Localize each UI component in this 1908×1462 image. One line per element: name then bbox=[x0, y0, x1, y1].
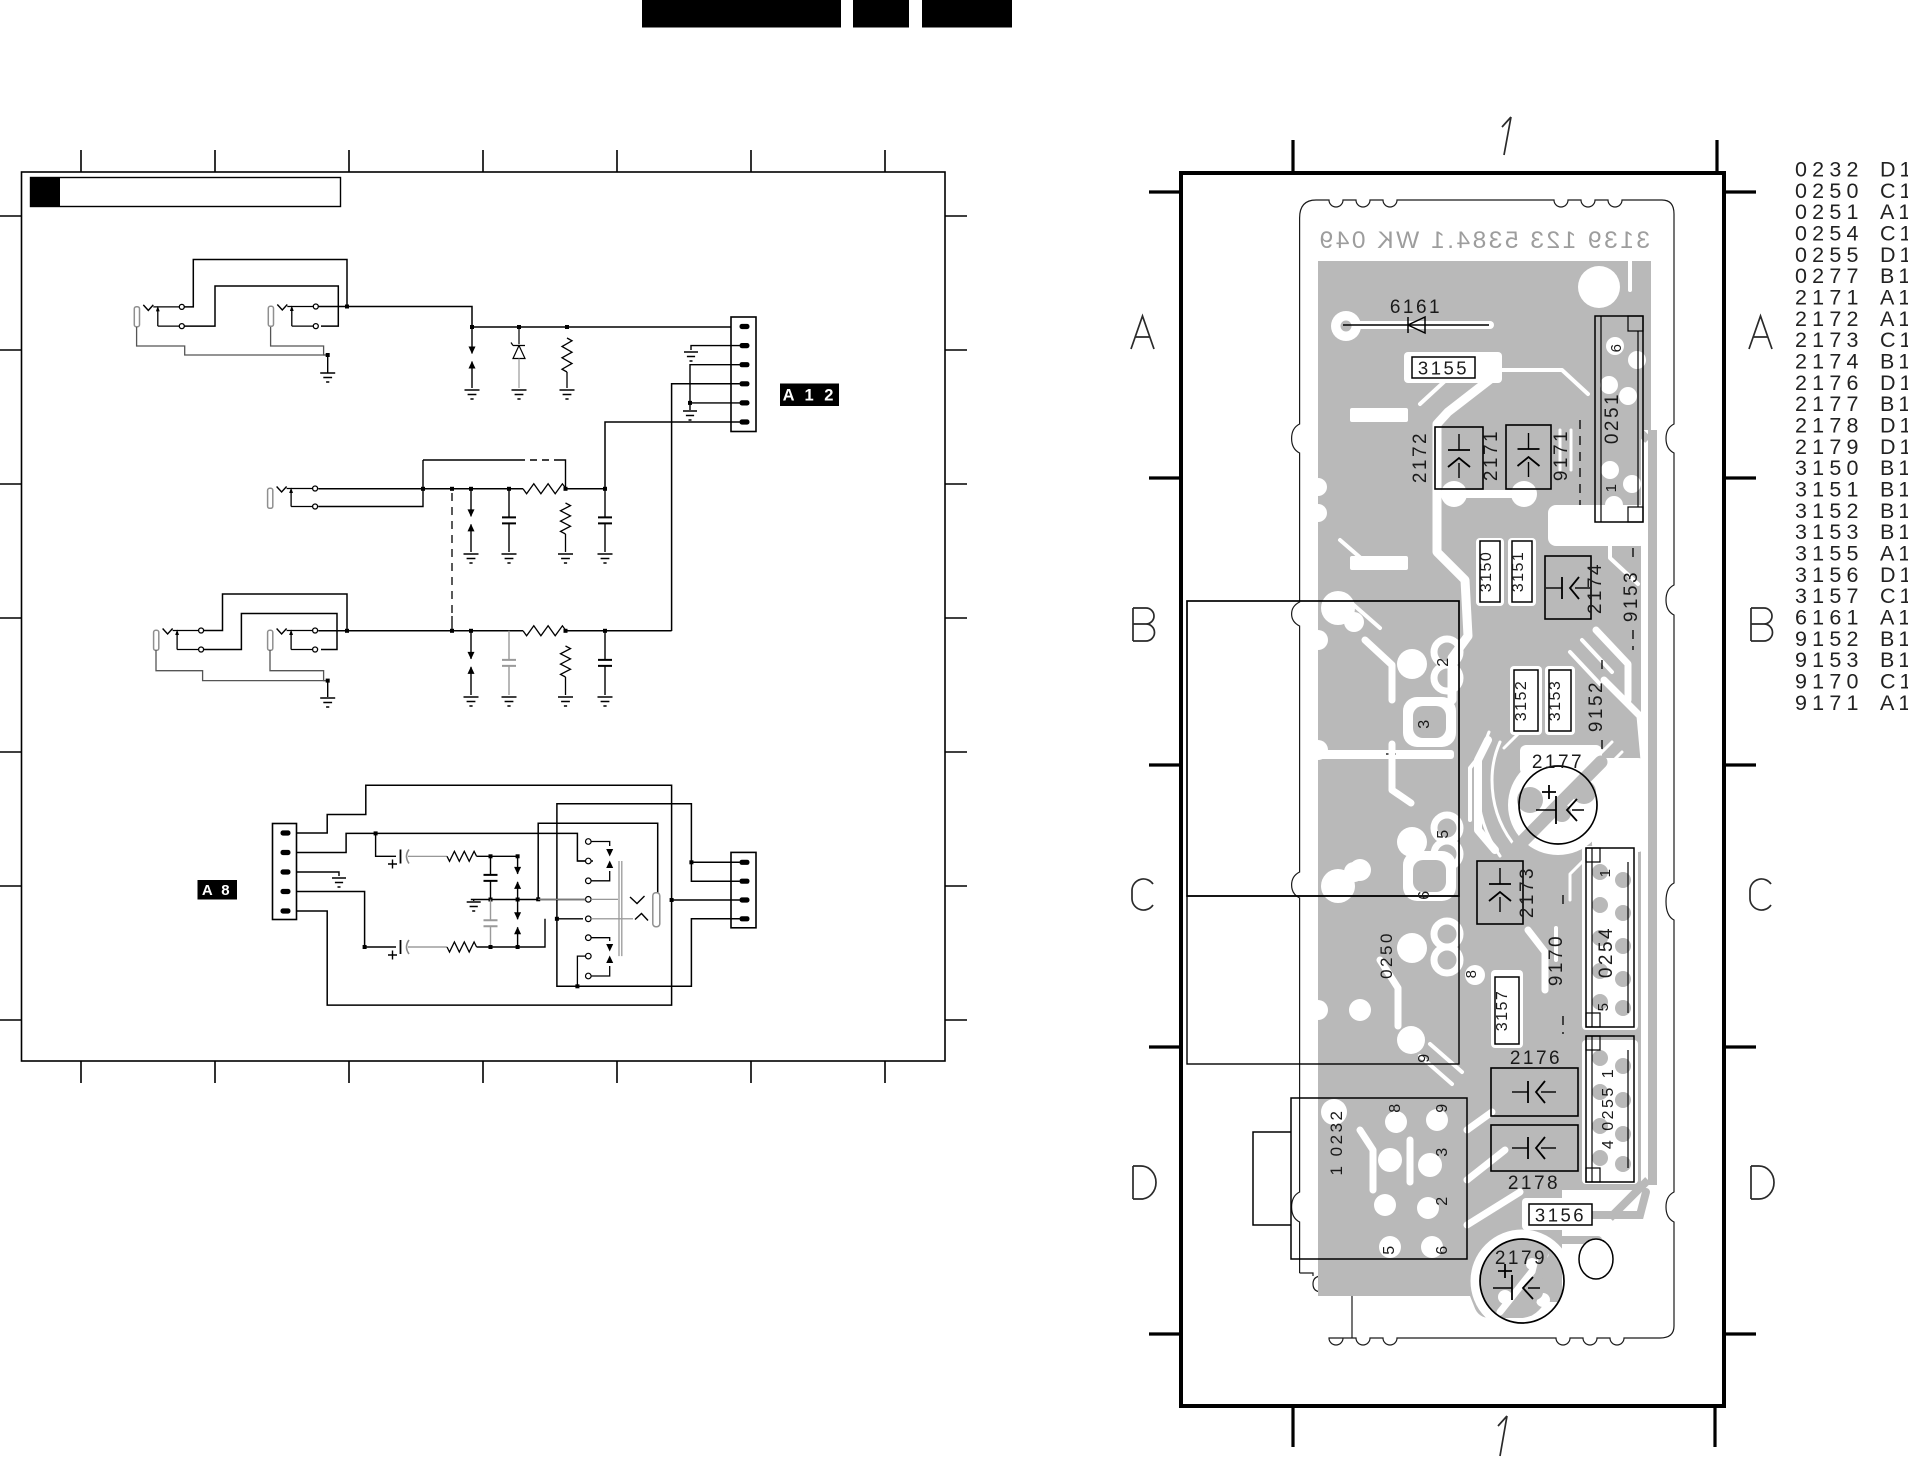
spark gap SG5 bbox=[517, 900, 519, 948]
resistor R3 bbox=[564, 487, 568, 491]
spark gap SG3 bbox=[469, 629, 473, 633]
svg-text:2173: 2173 bbox=[1517, 866, 1538, 918]
zone letter C left bbox=[1132, 879, 1153, 910]
zone number 1 top bbox=[1502, 117, 1511, 155]
wire row2 main bbox=[318, 630, 671, 632]
wire c5 row gray bbox=[591, 918, 633, 920]
capacitor C4 bbox=[603, 629, 607, 633]
jack J5 bbox=[268, 628, 318, 652]
svg-text:6: 6 bbox=[1608, 342, 1625, 353]
connector 0254 bbox=[1586, 848, 1634, 1027]
zone letter A right bbox=[1749, 316, 1772, 349]
copper pour bbox=[1318, 261, 1651, 1318]
svg-text:0254: 0254 bbox=[1596, 926, 1617, 978]
connector 0250 pin labels bbox=[1377, 655, 1452, 1062]
label A8 bbox=[198, 880, 238, 900]
resistor R2 series bbox=[523, 484, 566, 494]
junction spark gap top bbox=[470, 325, 474, 329]
svg-text:6161: 6161 bbox=[1795, 605, 1864, 629]
copper clearances and traces (white) bbox=[1308, 260, 1665, 1328]
svg-text:3157: 3157 bbox=[1494, 990, 1511, 1032]
connector 0232 outline bbox=[1253, 1098, 1467, 1259]
svg-text:B1: B1 bbox=[1880, 264, 1908, 288]
spark gap SG1 bbox=[471, 327, 473, 388]
svg-text:9: 9 bbox=[1434, 1101, 1451, 1112]
svg-text:3155: 3155 bbox=[1795, 541, 1864, 565]
connector 0232 pin labels bbox=[1381, 1101, 1451, 1254]
svg-text:A1: A1 bbox=[1880, 605, 1908, 629]
electrolytic capacitor C10 bbox=[365, 946, 396, 948]
capacitor 2171 bbox=[1481, 425, 1551, 489]
connector A12 bbox=[731, 317, 756, 432]
capacitor 2173 bbox=[1477, 861, 1538, 924]
wire loop inner J4 ring bbox=[204, 614, 337, 650]
svg-text:3151: 3151 bbox=[1510, 551, 1527, 593]
ground A12 pin3/5 bbox=[683, 411, 697, 420]
svg-text:2176: 2176 bbox=[1510, 1048, 1562, 1069]
wire c6 to switch arrow bbox=[591, 938, 610, 941]
wire c4 tip row bbox=[538, 898, 618, 900]
svg-text:9171: 9171 bbox=[1795, 691, 1864, 715]
connector 0255 bbox=[1586, 1036, 1634, 1182]
ground A12 pin2 bbox=[684, 352, 698, 361]
wire row1 dashed tap bbox=[451, 493, 453, 616]
wire J1 shield bbox=[137, 327, 328, 355]
zone letter C right bbox=[1750, 879, 1771, 910]
zone letter D left bbox=[1133, 1166, 1156, 1199]
wire A8 pin3 to ground bbox=[297, 872, 340, 876]
frame zone ticks left bbox=[0, 216, 22, 1020]
ground shield top bbox=[320, 373, 335, 382]
wire J4 shield bbox=[156, 650, 328, 681]
svg-text:2172: 2172 bbox=[1410, 431, 1431, 483]
ground SG2 bbox=[464, 554, 479, 563]
zone letter B left bbox=[1133, 608, 1155, 641]
connector 0251 bbox=[1595, 316, 1643, 522]
svg-text:2177: 2177 bbox=[1795, 392, 1864, 416]
svg-text:6: 6 bbox=[1434, 1243, 1451, 1254]
wire A12 pin4 long riser bbox=[672, 384, 740, 631]
wire row1 main bbox=[318, 488, 605, 490]
jumper 9152 bbox=[1586, 660, 1607, 754]
wire A8 pin4 to lower row bbox=[297, 892, 365, 948]
wire cap2 row right bbox=[477, 919, 545, 947]
headphone jack J6 bbox=[586, 839, 660, 979]
spark gap SG2 bbox=[469, 487, 473, 491]
wire J2 tip to A12 pin1 bbox=[318, 307, 731, 328]
svg-text:3152: 3152 bbox=[1513, 680, 1530, 722]
capacitor C6 bbox=[490, 900, 492, 948]
svg-text:4 0255 1: 4 0255 1 bbox=[1600, 1067, 1617, 1149]
svg-text:3150: 3150 bbox=[1478, 551, 1495, 593]
electrolytic capacitor C9 bbox=[376, 833, 396, 856]
wire A12 pin2 to ground bbox=[691, 346, 740, 350]
connector A8 bbox=[273, 824, 297, 920]
capacitor 2177 bbox=[1519, 752, 1597, 844]
svg-text:0277: 0277 bbox=[1795, 264, 1864, 288]
junction shields bbox=[326, 353, 330, 357]
component 3151 bbox=[1510, 541, 1532, 602]
svg-text:5: 5 bbox=[1381, 1243, 1398, 1254]
jack J2 bbox=[268, 304, 318, 329]
svg-text:A 1 2: A 1 2 bbox=[783, 387, 837, 405]
svg-text:9170: 9170 bbox=[1795, 669, 1864, 693]
ground D1 bbox=[512, 390, 527, 399]
component 3153 bbox=[1547, 670, 1571, 731]
svg-text:5: 5 bbox=[1595, 1001, 1612, 1012]
mounting hole bbox=[1579, 1239, 1613, 1279]
resistor R5 bbox=[564, 629, 568, 633]
capacitor C1 bbox=[507, 487, 511, 491]
wire loop outer (J1 tip net) bbox=[184, 260, 347, 307]
wire loop outer J4 tip bbox=[204, 594, 347, 631]
wire loop inner (J1 ring net) bbox=[184, 286, 338, 326]
svg-text:9170: 9170 bbox=[1546, 934, 1567, 986]
capacitor 2179 bbox=[1480, 1239, 1564, 1323]
redaction bar 2 bbox=[853, 0, 909, 28]
wire J3 ring bbox=[318, 460, 423, 507]
svg-text:2173: 2173 bbox=[1795, 328, 1864, 352]
capacitor C3 bbox=[508, 631, 510, 695]
wire J2 shield bbox=[271, 327, 328, 355]
capacitor 2178 bbox=[1491, 1125, 1578, 1194]
zone letter B right bbox=[1751, 608, 1773, 641]
wire 2nd loop (right connector pins 1/2 to tap) bbox=[557, 804, 740, 987]
frame zone ticks right bbox=[945, 216, 967, 1020]
component 3157 bbox=[1494, 977, 1519, 1044]
svg-text:3: 3 bbox=[1434, 1145, 1451, 1156]
svg-text:1: 1 bbox=[1603, 482, 1620, 493]
copper islands (gray) bbox=[1341, 321, 1658, 1313]
svg-text:3155: 3155 bbox=[1418, 358, 1469, 379]
component 3156 bbox=[1529, 1204, 1592, 1226]
resistor R7 bbox=[447, 942, 477, 952]
PCB frame ticks bbox=[1149, 140, 1756, 1447]
component 3150 bbox=[1478, 541, 1500, 602]
label A12 bbox=[780, 384, 839, 407]
svg-text:B1: B1 bbox=[1880, 477, 1908, 501]
redaction bar 1 bbox=[642, 0, 841, 28]
svg-text:9171: 9171 bbox=[1551, 429, 1572, 481]
svg-text:2179: 2179 bbox=[1495, 1248, 1547, 1269]
ground C2 bbox=[598, 554, 613, 563]
diode 6161 bbox=[1343, 317, 1489, 333]
ground C1 bbox=[502, 554, 517, 563]
wire J5 shield bbox=[270, 650, 328, 681]
component 3155 bbox=[1412, 357, 1475, 379]
resistor R1 bbox=[562, 338, 572, 372]
junction J2 tip bbox=[345, 305, 349, 309]
svg-text:2174: 2174 bbox=[1585, 562, 1606, 614]
junction resistor top bbox=[565, 325, 569, 329]
title block bbox=[31, 178, 341, 207]
connector A11 (4-pin right) bbox=[731, 852, 756, 927]
PCB sheet frame bbox=[1181, 173, 1724, 1406]
svg-text:3: 3 bbox=[1416, 717, 1433, 728]
wire c3 switch arrow bbox=[591, 871, 610, 881]
wire A12 pin6 riser bbox=[605, 422, 740, 489]
capacitor 2172 bbox=[1410, 427, 1483, 489]
ground A8 pin3 bbox=[332, 878, 346, 887]
frame zone ticks bottom bbox=[81, 1061, 885, 1083]
connector 0250 outline box B bbox=[1187, 601, 1459, 896]
wire right connector pin3 bbox=[672, 899, 740, 901]
jack J1 bbox=[134, 304, 184, 328]
wire headphone tip contact row bbox=[536, 897, 540, 901]
jumper 9153 bbox=[1621, 548, 1642, 650]
spark gap SG4 bbox=[516, 854, 520, 858]
svg-text:8: 8 bbox=[1463, 968, 1480, 979]
svg-text:3153: 3153 bbox=[1547, 680, 1564, 722]
svg-text:0250: 0250 bbox=[1377, 931, 1396, 979]
jumper 9171 bbox=[1551, 420, 1580, 505]
ground SG1 bbox=[465, 390, 480, 399]
svg-text:9152: 9152 bbox=[1586, 680, 1607, 732]
jack J4 bbox=[154, 628, 204, 652]
resistor R6 bbox=[447, 851, 477, 861]
ground R3 bbox=[558, 554, 573, 563]
svg-text:2177: 2177 bbox=[1532, 752, 1584, 773]
ground SG3 bbox=[464, 697, 479, 706]
capacitor 2176 bbox=[1491, 1048, 1578, 1116]
svg-text:3156: 3156 bbox=[1535, 1205, 1586, 1226]
redaction bar 3 bbox=[922, 0, 1012, 28]
svg-text:A1: A1 bbox=[1880, 541, 1908, 565]
svg-text:2: 2 bbox=[1435, 655, 1452, 666]
capacitor C5 bbox=[490, 856, 492, 899]
resistor R4 series bbox=[523, 626, 566, 636]
zener diode D1 bbox=[518, 327, 520, 344]
ground C4 bbox=[598, 697, 613, 706]
zone letter D right bbox=[1751, 1166, 1774, 1199]
ground R1 bbox=[560, 390, 575, 399]
parts list bbox=[1795, 158, 1908, 715]
wire c2 to A8 pin2 net bbox=[577, 860, 585, 862]
svg-text:2: 2 bbox=[1434, 1194, 1451, 1205]
ground shields row2 bbox=[320, 698, 335, 707]
ground mid row bbox=[467, 902, 481, 911]
gray contact bars bbox=[619, 861, 622, 956]
wire A8 pin2 net bbox=[297, 833, 594, 861]
svg-text:1 0232: 1 0232 bbox=[1327, 1109, 1346, 1176]
frame zone ticks top bbox=[81, 150, 885, 172]
ground C3 bbox=[502, 697, 517, 706]
svg-text:A 8: A 8 bbox=[202, 882, 232, 899]
svg-text:B1: B1 bbox=[1880, 392, 1908, 416]
wire A8 outer loop pin1-pin5 bbox=[297, 785, 672, 1005]
svg-text:C1: C1 bbox=[1880, 328, 1908, 352]
jumper 9170 bbox=[1546, 895, 1567, 1034]
wire shield to ground bbox=[327, 355, 329, 373]
zone number 1 bottom bbox=[1498, 1416, 1507, 1456]
svg-text:9: 9 bbox=[1416, 1051, 1433, 1062]
svg-text:1: 1 bbox=[1597, 867, 1614, 878]
component 3152 bbox=[1513, 670, 1538, 731]
svg-text:2178: 2178 bbox=[1508, 1173, 1560, 1194]
svg-text:8: 8 bbox=[1387, 1101, 1404, 1112]
wire cap1 row right bbox=[477, 855, 518, 857]
wire row1 bypass bbox=[423, 459, 518, 461]
svg-text:0250: 0250 bbox=[1795, 179, 1864, 203]
mid ground row bbox=[471, 899, 586, 901]
svg-text:A1: A1 bbox=[1880, 691, 1908, 715]
svg-text:0251: 0251 bbox=[1602, 392, 1623, 444]
wire c8 switch arrow bbox=[591, 966, 610, 976]
wire c1 to switch arrow bbox=[591, 842, 610, 847]
ground R5 bbox=[558, 697, 573, 706]
jack J3 bbox=[268, 486, 318, 509]
svg-text:6161: 6161 bbox=[1390, 297, 1442, 318]
svg-text:C1: C1 bbox=[1880, 179, 1908, 203]
PCB board outline bbox=[1292, 200, 1674, 1345]
svg-text:5: 5 bbox=[1435, 827, 1452, 838]
svg-text:C1: C1 bbox=[1880, 669, 1908, 693]
capacitor C2 bbox=[603, 487, 607, 491]
svg-text:3139 123 5384.1 WK 049: 3139 123 5384.1 WK 049 bbox=[1317, 227, 1650, 254]
zone letter A left bbox=[1131, 316, 1154, 349]
connector 0250 outline box C bbox=[1187, 896, 1459, 1064]
svg-text:2171: 2171 bbox=[1481, 429, 1502, 481]
junction zener top bbox=[517, 325, 521, 329]
wire c7 down link bbox=[577, 956, 585, 986]
schematic sheet frame bbox=[22, 172, 946, 1061]
svg-text:9153: 9153 bbox=[1621, 570, 1642, 622]
capacitor 2174 bbox=[1545, 556, 1606, 619]
wire headphone inner loop bbox=[538, 823, 658, 899]
svg-text:6: 6 bbox=[1416, 888, 1433, 899]
wire A12 pin3+pin5 to ground bbox=[690, 365, 740, 410]
svg-text:3151: 3151 bbox=[1795, 477, 1864, 501]
wire c5 tap bbox=[557, 918, 583, 920]
